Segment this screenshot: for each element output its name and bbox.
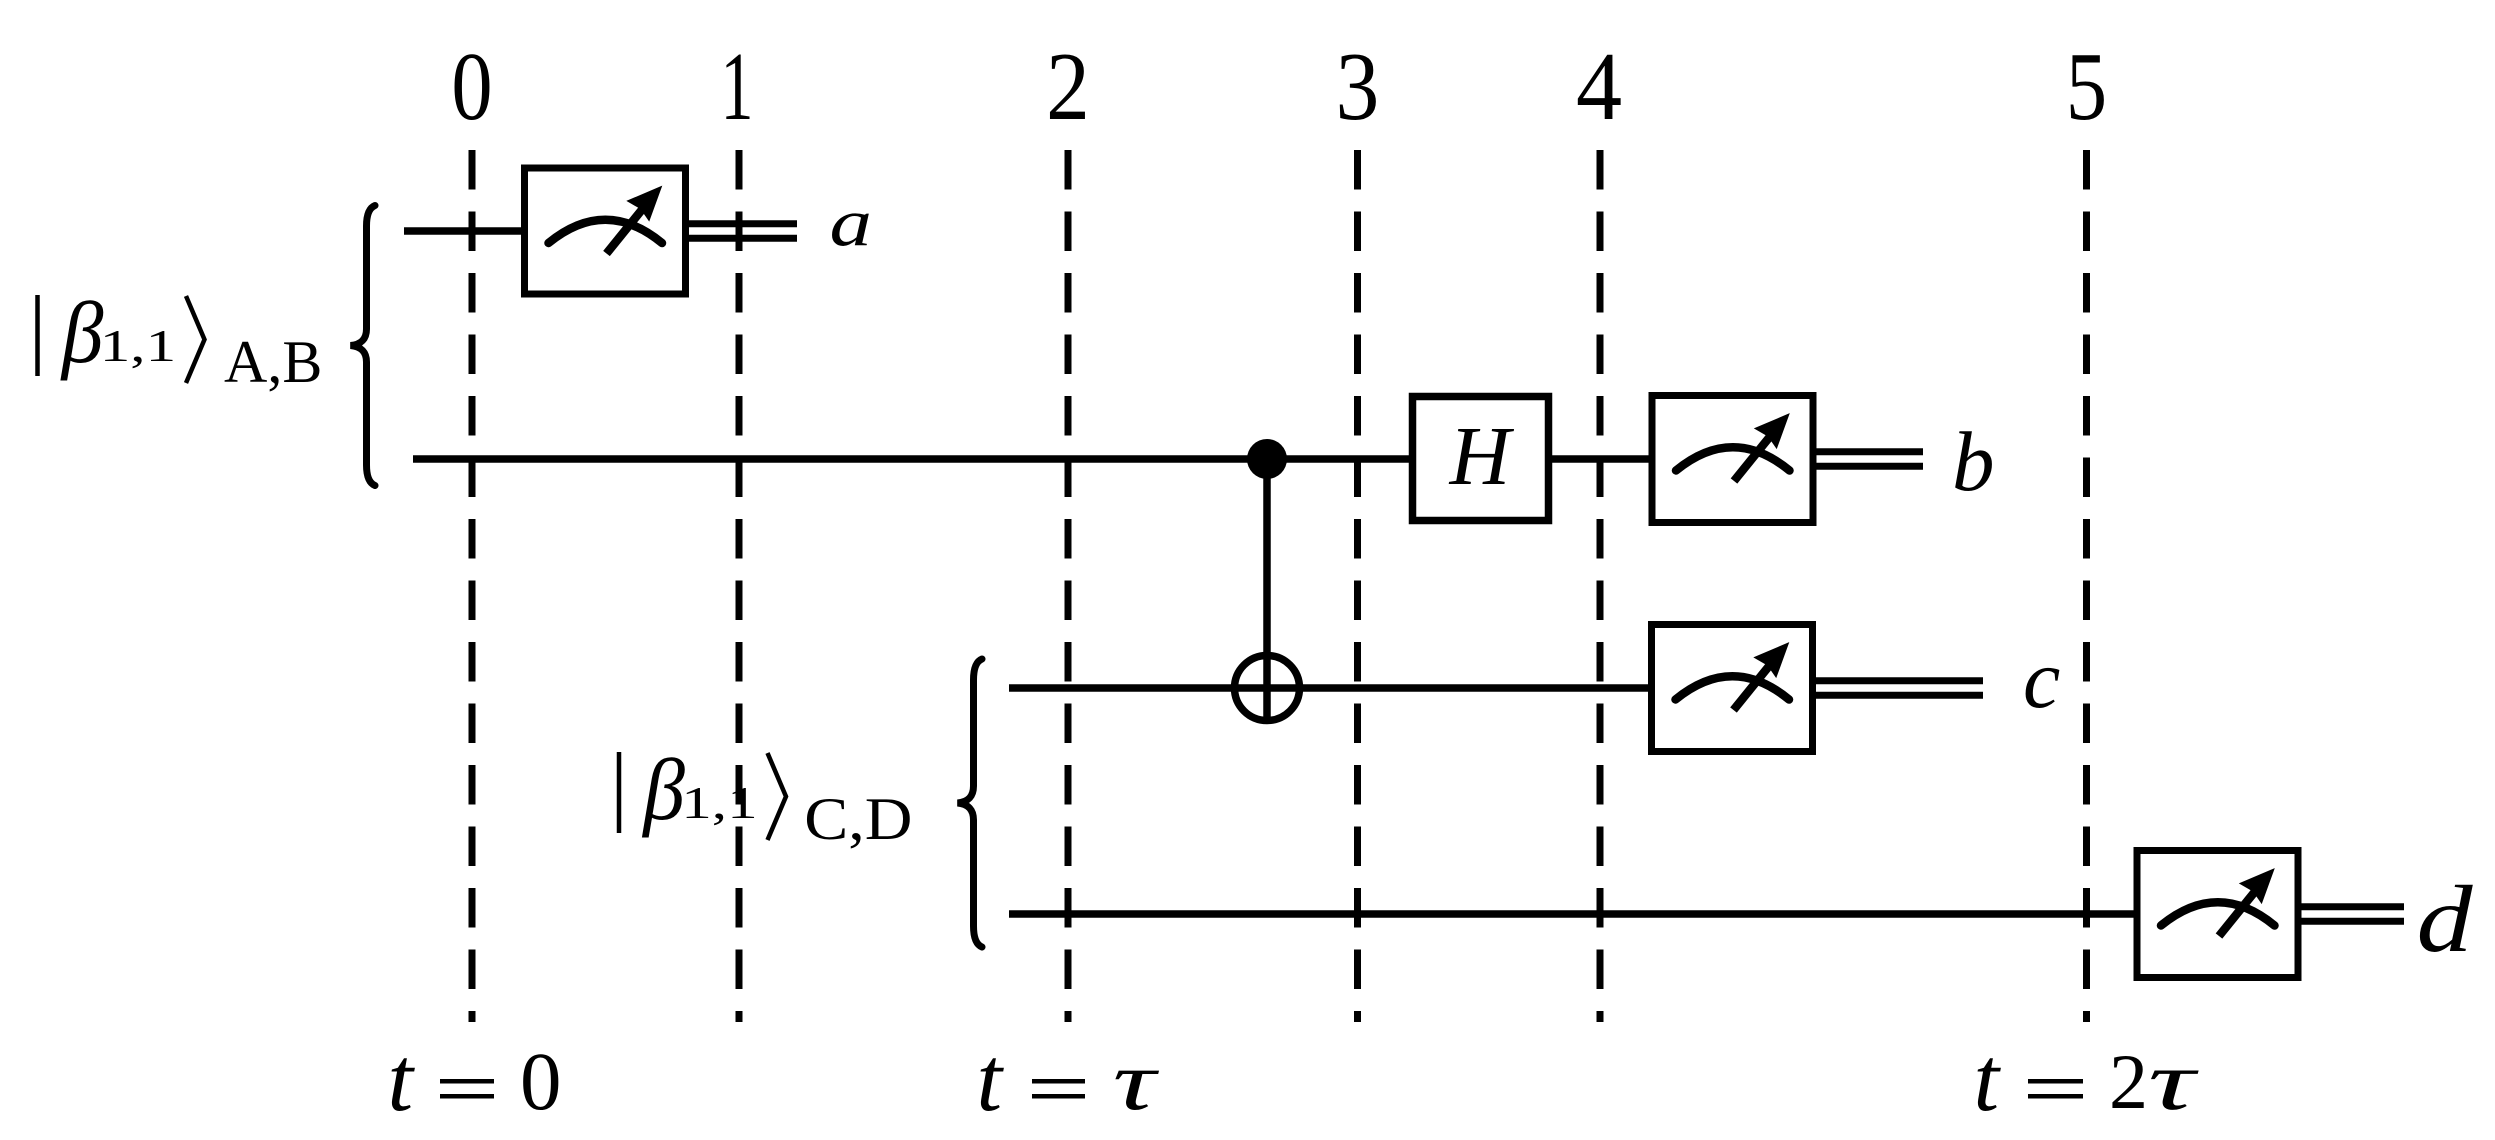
svg-text:t: t xyxy=(388,1028,416,1130)
svg-text:1: 1 xyxy=(721,32,754,140)
svg-text:1,1: 1,1 xyxy=(100,320,176,371)
svg-text:β: β xyxy=(60,284,104,381)
svg-text:3: 3 xyxy=(1336,33,1380,140)
svg-text:b: b xyxy=(1952,415,1995,509)
svg-text:H: H xyxy=(1449,410,1515,503)
svg-text:2: 2 xyxy=(1046,33,1090,140)
svg-text:τ: τ xyxy=(2148,1034,2199,1128)
svg-text:t: t xyxy=(1974,1028,2002,1130)
svg-text:c: c xyxy=(2023,633,2060,726)
svg-text:t: t xyxy=(977,1028,1005,1130)
svg-text:a: a xyxy=(830,185,872,261)
svg-text:2: 2 xyxy=(2109,1038,2148,1125)
svg-text:C,D: C,D xyxy=(804,786,912,853)
svg-text:d: d xyxy=(2417,867,2474,972)
svg-text:τ: τ xyxy=(1113,1035,1160,1128)
svg-text:5: 5 xyxy=(2066,34,2107,141)
svg-text:1,1: 1,1 xyxy=(681,777,757,828)
svg-text:0: 0 xyxy=(520,1035,562,1127)
svg-text:A,B: A,B xyxy=(224,329,322,395)
svg-text:β: β xyxy=(641,741,685,838)
svg-text:4: 4 xyxy=(1576,34,1622,141)
svg-text:0: 0 xyxy=(451,34,492,141)
